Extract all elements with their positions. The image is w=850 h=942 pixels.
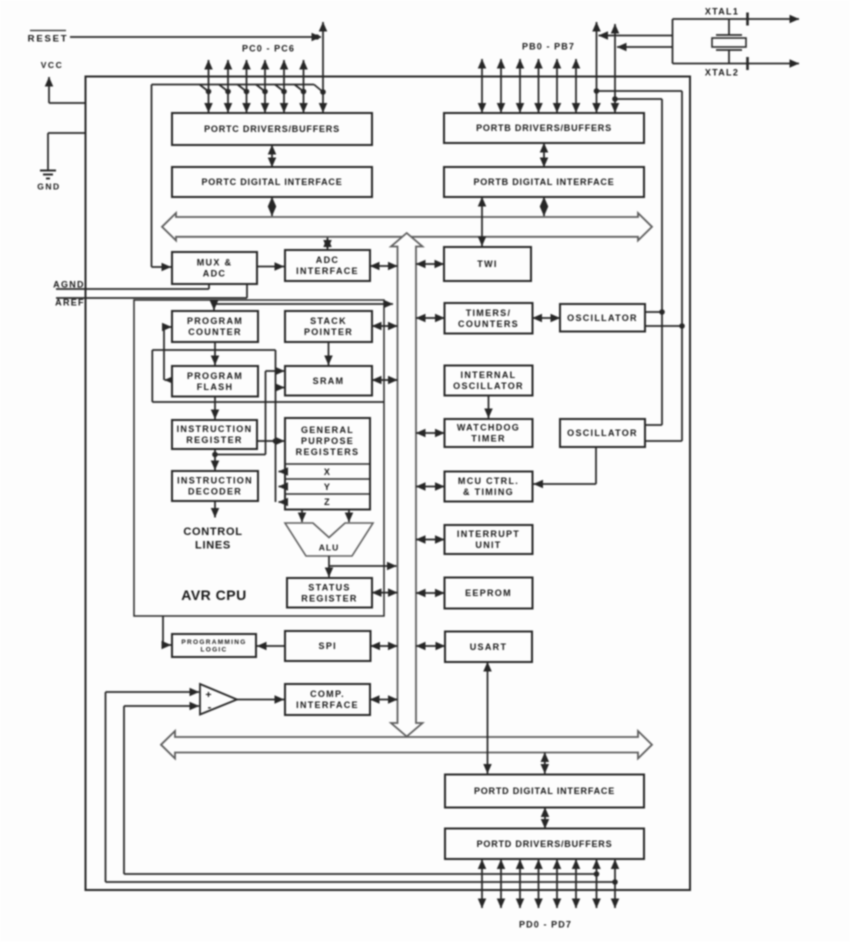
block EEPROM [445,578,533,609]
wire ADC interface to central bus [370,265,398,267]
svg-text:INSTRUCTION: INSTRUCTION [177,476,253,486]
wire comparator minus input [124,705,199,707]
block ADC INTERFACE [285,250,370,281]
AREF analog reference label and wire [55,284,247,308]
block WATCHDOG TIMER [445,419,533,447]
svg-text:POINTER: POINTER [304,327,353,337]
svg-text:PB0 - PB7: PB0 - PB7 [522,42,575,52]
wire instruction register to instruction decoder [212,449,218,470]
svg-text:PROGRAM: PROGRAM [187,371,243,381]
wire interrupt unit to central bus [416,539,445,541]
block INTERRUPT UNIT [445,525,533,554]
wire Y row to address line [279,486,286,488]
wire CPU box to programming logic [163,616,171,645]
svg-text:STATUS: STATUS [308,582,350,592]
svg-text:INTERFACE: INTERFACE [296,700,359,710]
wire port pin PB2 (bidirectional arrow) [519,59,521,113]
wire instruction register output to SRAM (v1) [215,371,285,455]
block INTERNAL OSCILLATOR [445,366,533,396]
block PORTD DIGITAL INTERFACE [445,775,644,808]
wire port pin PC3 (bidirectional arrow) [264,60,266,113]
wire USART to PORTD digital interface (crosses bottom bus) [487,662,489,774]
svg-text:REGISTER: REGISTER [186,435,242,445]
wire port pin PD4 (bidirectional arrow) [556,860,558,909]
block PORTB DRIVERS/BUFFERS [444,113,644,143]
wire MUX to ADC interface [257,266,284,268]
block INSTRUCTION DECODER [172,471,258,501]
svg-text:COUNTERS: COUNTERS [458,319,519,329]
wire port pin PD0 (bidirectional arrow) [481,860,483,909]
wire program flash to instruction register [214,397,216,420]
wire SPI to central bus [371,645,398,647]
outer chip boundary box [86,77,691,891]
wire PORTC digital interface to top bus [271,197,273,216]
wire comp interface to central bus [370,699,398,701]
wire port pin PB5 (bidirectional arrow) [575,59,577,113]
wire port pin PD1 (bidirectional arrow) [500,860,502,909]
svg-text:VCC: VCC [41,60,63,70]
svg-text:PORTB DIGITAL INTERFACE: PORTB DIGITAL INTERFACE [473,177,614,187]
wire oscillator1 to XTAL1 route [645,325,682,327]
svg-text:& TIMING: & TIMING [463,487,514,497]
wire port pin PB1 (bidirectional arrow) [500,59,502,113]
AGND analog ground label and wire [53,280,209,290]
svg-text:AREF: AREF [55,298,85,308]
wire program counter to program flash [214,342,216,365]
svg-text:INTERFACE: INTERFACE [296,266,359,276]
wire port pin PD2 (bidirectional arrow) [519,860,521,909]
wire EEPROM to central bus [416,592,445,594]
crystal symbol [673,19,747,64]
wire XTAL2 into PB7 line [617,46,673,48]
block USART [445,632,532,663]
block GENERAL PURPOSE REGISTERS [285,418,370,510]
wire port pin PC5 (bidirectional arrow) [303,60,305,113]
svg-text:AVR CPU: AVR CPU [181,587,246,603]
wire oscillator2 to MCU ctrl timing [534,447,597,484]
svg-text:INSTRUCTION: INSTRUCTION [177,424,253,434]
analog comparator (triangle with + -) [200,684,237,715]
wire comparator minus input feedback from PD6 pin [124,706,599,877]
wire port pin PB3 (bidirectional arrow) [538,59,540,113]
block PORTD DRIVERS/BUFFERS [445,829,644,860]
wire MCU ctrl to central bus [416,486,445,488]
wire ADC interface up to top bus [327,238,329,250]
svg-text:TIMERS/: TIMERS/ [466,308,512,318]
wire port pin PB7/XTAL2 [614,24,616,113]
wire PORTB drivers to digital interface [543,143,545,167]
block TIMERS/COUNTERS [445,303,533,334]
svg-text:RESET: RESET [28,34,69,45]
wire ALU to status register [328,556,330,577]
VCC pin symbol [41,60,86,103]
svg-text:WATCHDOG: WATCHDOG [457,423,520,433]
wire comparator plus input [106,691,200,693]
svg-text:PORTC DIGITAL INTERFACE: PORTC DIGITAL INTERFACE [201,177,342,187]
wire GPR to ALU left input [301,510,303,523]
block PROGRAM FLASH [172,366,258,397]
wire port pin PD5 (bidirectional arrow) [575,860,577,909]
wire USART to central bus [416,645,445,647]
svg-text:INTERRUPT: INTERRUPT [457,529,520,539]
svg-text:OSCILLATOR: OSCILLATOR [567,428,638,438]
svg-text:PURPOSE: PURPOSE [301,436,354,446]
wire port pin PD7 (bidirectional arrow) [614,860,616,909]
block MCU CTRL & TIMING [445,472,533,502]
wire X/Y/Z common address line (v2) [276,350,285,502]
wire central bus to program counter [214,304,393,310]
AVR CPU boundary box [134,300,384,616]
wire port pin PB4 (bidirectional arrow) [556,59,558,113]
svg-text:SRAM: SRAM [313,376,345,386]
svg-text:GENERAL: GENERAL [301,425,354,435]
wire ALU output to central bus [329,565,397,567]
wire stack pointer to central bus [372,325,398,327]
svg-text:Z: Z [324,497,331,507]
wire PORTD digital interface to drivers [544,808,546,829]
wire TWI to central bus [416,263,444,265]
analog input collector line with diagonal taps [152,85,326,95]
svg-text:REGISTER: REGISTER [301,593,357,603]
wire oscillator2 to XTAL2 route [645,424,662,426]
wire port pin PC2 (bidirectional arrow) [246,60,248,113]
wire PORTC drivers to digital interface [271,145,273,167]
wire instruction register to general purpose registers [257,438,285,444]
svg-text:USART: USART [470,642,508,652]
RESET pin label with overline [28,31,69,45]
wire port pin PD3 (bidirectional arrow) [538,860,540,909]
central vertical data bus (double-headed hollow arrow) [391,233,423,737]
svg-text:XTAL2: XTAL2 [705,68,739,78]
wire port pin PC0 (bidirectional arrow) [208,60,210,113]
svg-text:ADC: ADC [203,269,226,279]
svg-text:XTAL1: XTAL1 [705,7,739,17]
wire timers to central bus [416,317,445,319]
svg-text:GND: GND [37,182,60,192]
GND pin symbol [37,133,85,192]
wire PB7 clock route right and down to oscillators [612,96,665,425]
svg-text:MUX &: MUX & [197,258,233,268]
svg-text:PORTD DRIVERS/BUFFERS: PORTD DRIVERS/BUFFERS [477,839,613,849]
svg-text:TIMER: TIMER [471,434,506,444]
svg-text:LINES: LINES [195,540,231,552]
top horizontal data bus (double-headed hollow arrow) [162,213,652,241]
svg-text:PROGRAM: PROGRAM [187,316,243,326]
wire SRAM to central bus [372,379,398,381]
svg-text:PC0 - PC6: PC0 - PC6 [242,44,295,54]
ALU unit (trapezoid) [285,523,373,556]
label CONTROL LINES [183,526,242,552]
svg-text:DECODER: DECODER [188,487,242,497]
block PROGRAM COUNTER [172,311,258,342]
svg-text:COUNTER: COUNTER [188,327,242,337]
svg-text:ADC: ADC [316,255,339,265]
svg-text:LOGIC: LOGIC [200,647,227,654]
wire stack pointer to SRAM [328,342,330,365]
svg-text:SPI: SPI [319,641,337,651]
wire PORTB digital interface to top bus [543,197,545,216]
svg-text:ALU: ALU [319,543,339,553]
wire comparator plus input feedback from PD7 pin [106,692,618,885]
wire bottom bus to PORTD digital interface [544,753,546,774]
wire instruction decoder to control lines [214,501,216,518]
svg-text:PORTD DIGITAL INTERFACE: PORTD DIGITAL INTERFACE [474,786,615,796]
svg-text:TWI: TWI [477,259,497,269]
block PROGRAMMING LOGIC [172,634,256,657]
svg-text:PROGRAMMING: PROGRAMMING [181,639,246,646]
svg-text:UNIT: UNIT [475,540,501,550]
wire port pin PB6/XTAL1 [596,22,598,113]
block PORTB DIGITAL INTERFACE [444,167,644,197]
wire port pin PD6 (bidirectional arrow) [596,860,598,909]
svg-text:-: - [208,702,212,714]
wire PB6 clock route right and down to oscillators [594,88,685,441]
svg-text:OSCILLATOR: OSCILLATOR [567,313,638,323]
wire oscillator1 to XTAL2 route [645,311,662,313]
wire comparator output to comp interface [237,699,284,701]
wire SPI to programming logic [257,645,285,647]
svg-text:+: + [205,689,211,701]
wire RESET to PC6 line [70,34,321,39]
wire Z row to address line [279,501,286,503]
block PORTC DIGITAL INTERFACE [172,167,372,197]
bottom horizontal data bus (double-headed hollow arrow) [161,731,652,759]
wire internal oscillator to watchdog timer [488,396,490,419]
block TWI [444,247,531,281]
svg-text:STACK: STACK [310,316,347,326]
svg-text:PORTB DRIVERS/BUFFERS: PORTB DRIVERS/BUFFERS [476,123,612,133]
svg-text:COMP.: COMP. [310,689,345,699]
svg-text:MCU CTRL.: MCU CTRL. [458,476,519,486]
wire port pin PC4 (bidirectional arrow) [283,60,285,113]
block OSCILLATOR 1 [560,304,645,332]
block SPI [285,631,371,661]
block PORTC DRIVERS/BUFFERS [172,113,372,145]
block STATUS REGISTER [287,578,372,608]
wire XTAL2 external lead with pin tick [673,57,800,70]
svg-text:PD0 - PD7: PD0 - PD7 [519,920,572,930]
svg-text:OSCILLATOR: OSCILLATOR [453,381,524,391]
wire port pin PB0 (bidirectional arrow) [481,59,483,113]
block OSCILLATOR 2 [560,419,645,447]
svg-text:INTERNAL: INTERNAL [461,370,517,380]
wire PORTB digital interface to TWI (crosses top bus) [481,197,483,246]
wire analog section left edge down to MUX [152,85,172,268]
wire program counter / program flash side loop [164,327,172,380]
svg-text:X: X [324,467,331,477]
block SRAM [285,366,372,396]
block STACK POINTER [285,311,372,342]
svg-text:REGISTERS: REGISTERS [296,447,360,457]
wire XTAL1 into PB6 line [599,35,673,37]
svg-text:EEPROM: EEPROM [465,588,512,598]
svg-text:PORTC DRIVERS/BUFFERS: PORTC DRIVERS/BUFFERS [204,124,340,134]
wire X row to address line [279,471,286,473]
svg-text:Y: Y [324,482,331,492]
svg-text:FLASH: FLASH [197,382,234,392]
wire oscillator2 to XTAL1 route [645,440,682,442]
svg-text:AGND: AGND [53,280,85,290]
wire watchdog to central bus [416,432,445,434]
svg-text:CONTROL: CONTROL [183,526,242,538]
register file X Y Z rows [285,464,370,507]
wire status register to central bus [372,592,398,594]
block MUX & ADC [172,252,257,284]
block INSTRUCTION REGISTER [172,420,257,449]
wire XTAL1 external lead with pin tick [673,13,800,26]
wire PC6/RESET pin vertical [322,22,324,113]
wire port pin PC1 (bidirectional arrow) [227,60,229,113]
wire timers to oscillator [533,317,561,319]
wire X/Y/Z address loop around program flash to CPU edge [152,350,384,402]
block COMP. INTERFACE [285,684,370,715]
wire GPR to ALU right input [348,510,350,523]
